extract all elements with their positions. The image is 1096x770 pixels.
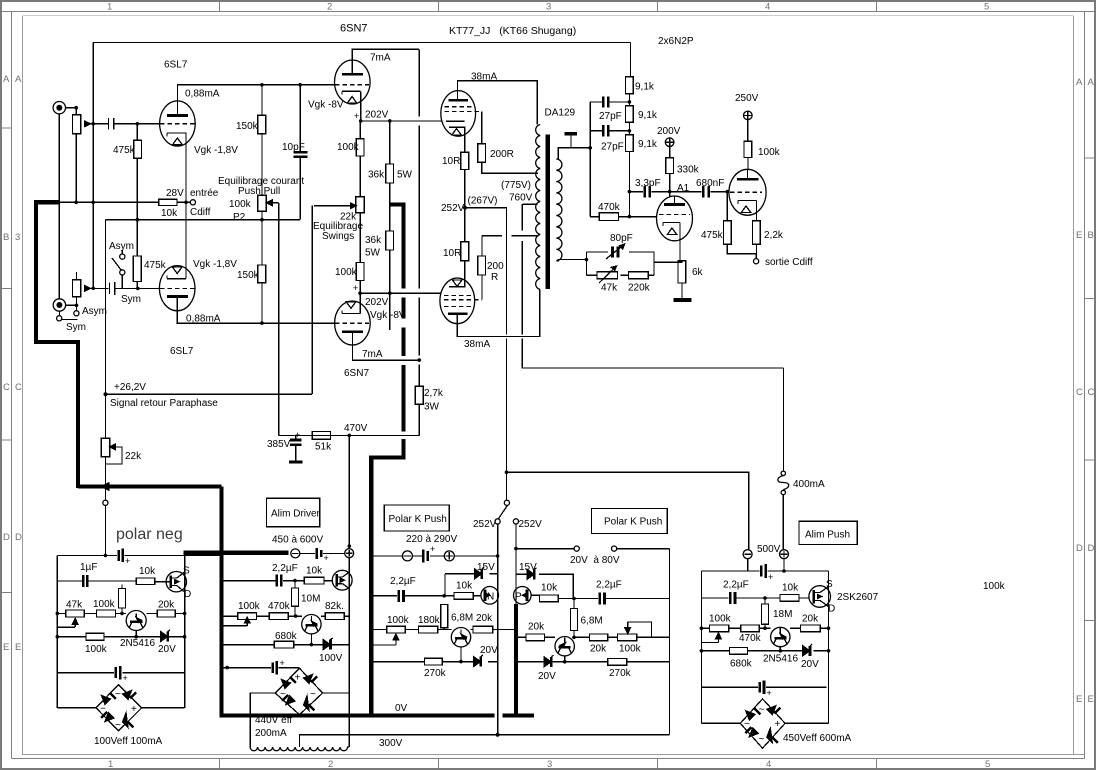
svg-text:(775V): (775V)	[501, 180, 531, 191]
capacitor 27pF #2	[590, 125, 629, 136]
bridge row alim push	[701, 722, 828, 724]
node row3 ends	[700, 626, 704, 630]
wire cathode V1a down	[185, 133, 187, 202]
tube V2b 6SN7 lower (flipped)	[335, 301, 371, 345]
svg-text:(267V): (267V)	[468, 196, 498, 207]
row3 pkp left	[371, 629, 497, 631]
potentiometer 22k retour	[101, 394, 122, 464]
wire 27pF left bus	[589, 102, 591, 217]
node 150k top	[260, 83, 264, 87]
node emitter	[134, 635, 138, 639]
svg-text:270k: 270k	[424, 668, 447, 679]
svg-text:+: +	[295, 673, 301, 684]
secondary coil 440V	[250, 747, 349, 751]
svg-text:200R: 200R	[490, 149, 514, 160]
node 3,3pF line	[628, 190, 632, 194]
resistor 9,1k #2	[626, 106, 634, 135]
A1 grid from 470k line	[590, 216, 656, 218]
resistor 150k lower	[258, 265, 266, 323]
resistor 470k feedback	[599, 213, 618, 221]
470V vertical rail x419	[418, 49, 420, 435]
terminal minus pkp left	[402, 551, 412, 561]
center tap 300V	[300, 735, 670, 747]
svg-text:+: +	[775, 719, 781, 730]
input jack J2	[53, 299, 65, 311]
202V lower line	[360, 292, 441, 294]
svg-text:500V: 500V	[757, 544, 781, 555]
svg-text:36k: 36k	[365, 235, 382, 246]
coupling capacitor C1	[109, 118, 114, 129]
wire grid node to 475k	[726, 192, 728, 221]
svg-text:N: N	[487, 592, 494, 603]
svg-text:C: C	[1088, 387, 1095, 398]
svg-text:2x6N2P: 2x6N2P	[658, 36, 694, 47]
svg-text:E: E	[3, 642, 9, 653]
svg-text:+26,2V: +26,2V	[114, 382, 146, 393]
node module top	[104, 554, 108, 558]
svg-text:10k: 10k	[306, 566, 323, 577]
trimmer capacitor 80pF	[606, 244, 625, 259]
svg-text:R: R	[491, 272, 498, 283]
wire cathode V1b up	[185, 202, 187, 278]
secondary top wire	[556, 148, 590, 159]
resistor 470k driver	[269, 613, 288, 620]
node bus row1	[496, 554, 500, 558]
thick branch to alim driver minus	[184, 551, 289, 555]
svg-text:82k.: 82k.	[325, 601, 344, 612]
node 252V to alim push	[505, 470, 509, 474]
svg-text:100k: 100k	[335, 267, 358, 278]
svg-text:9,1k: 9,1k	[635, 82, 655, 93]
resistor 475k lower	[133, 220, 141, 288]
transformer box 440V	[250, 693, 349, 747]
svg-text:2,2k: 2,2k	[764, 230, 784, 241]
node 6,8M right bottom	[572, 636, 576, 640]
box Alim Push	[799, 521, 857, 544]
wire pot2 top	[76, 272, 78, 280]
resistor 200R lower	[478, 236, 486, 300]
svg-text:22k: 22k	[125, 451, 142, 462]
inner frame left line	[22, 16, 24, 755]
node jack1	[74, 106, 78, 110]
node 10M bottom	[294, 614, 298, 618]
svg-text:3W: 3W	[424, 402, 440, 413]
capacitor 385V + ground	[289, 435, 302, 462]
wire jack1 tip to node	[66, 107, 77, 109]
svg-text:15V: 15V	[477, 562, 495, 573]
node A1 plate	[668, 190, 672, 194]
svg-text:Polar K Push: Polar K Push	[604, 517, 662, 528]
svg-text:D: D	[1088, 543, 1095, 554]
wire 6SL7 upper plate to rail	[177, 85, 335, 116]
resistor 20k polarneg	[157, 610, 175, 617]
28V 10k line	[60, 201, 186, 203]
potentiometer 22k swings	[314, 197, 364, 263]
node plus top line	[782, 569, 786, 573]
svg-text:1µF: 1µF	[80, 562, 97, 573]
potentiometer 100k P2	[258, 195, 279, 265]
terminal Sym lower	[57, 311, 78, 321]
svg-text:+: +	[125, 556, 130, 566]
svg-text:A: A	[3, 74, 10, 85]
wire pot P1 bottom down to 28V line	[75, 134, 77, 203]
cap row polarneg	[57, 672, 184, 674]
B+ wire down from tap	[522, 204, 783, 368]
resistor 470k push	[741, 625, 760, 632]
trimmer resistor 47k	[597, 266, 618, 283]
svg-text:10k: 10k	[161, 208, 178, 219]
svg-text:20k: 20k	[802, 614, 819, 625]
row2 pkp right	[559, 598, 670, 600]
svg-text:150k: 150k	[236, 121, 259, 132]
wire link left bus to right thick	[498, 629, 516, 631]
wire grid line upper 6SL7	[90, 123, 160, 125]
node 36k bottom	[388, 291, 392, 295]
svg-text:2SK2607: 2SK2607	[837, 592, 879, 603]
wire g2 upper to 200R	[481, 112, 483, 144]
svg-text:18M: 18M	[773, 609, 792, 620]
right bus alim push	[828, 571, 830, 723]
capacitor filter driver	[273, 658, 285, 675]
svg-text:0,88mA: 0,88mA	[185, 89, 220, 100]
svg-text:Cdiff: Cdiff	[190, 207, 211, 218]
svg-text:Alim Push: Alim Push	[805, 530, 850, 541]
node pot1 bottom	[74, 201, 78, 205]
wire 252V to down rail	[465, 208, 507, 473]
svg-text:20k: 20k	[158, 600, 175, 611]
alim driver right bus	[348, 558, 350, 693]
svg-text:680k: 680k	[275, 631, 298, 642]
svg-text:385V: 385V	[267, 439, 291, 450]
node 27pF1	[628, 100, 632, 104]
vertical resistor polarneg	[119, 585, 126, 614]
transistor 2N5416 driver	[302, 615, 321, 645]
resistor 200R upper	[478, 144, 538, 174]
node cathode junction	[184, 201, 188, 205]
svg-text:1: 1	[108, 759, 113, 770]
svg-text:4: 4	[766, 759, 771, 770]
bridge rectifier alim push	[740, 699, 785, 748]
node 18M bottom	[763, 626, 767, 630]
resistor 18M	[762, 598, 769, 628]
resistor 10k push	[780, 595, 799, 602]
svg-text:5: 5	[985, 759, 990, 770]
node cap row	[225, 666, 229, 670]
svg-text:200V: 200V	[657, 126, 681, 137]
svg-text:+: +	[354, 111, 359, 121]
row3 alim push	[701, 627, 828, 629]
capacitor 3,3pF	[645, 186, 650, 198]
svg-text:S: S	[826, 579, 833, 590]
svg-text:470V: 470V	[344, 423, 368, 434]
svg-text:10k: 10k	[139, 566, 156, 577]
zener 100V	[323, 638, 333, 650]
svg-text:10pF: 10pF	[282, 142, 305, 153]
grid line A1	[629, 191, 669, 193]
svg-text:3: 3	[15, 232, 20, 243]
svg-text:Vgk -1,8V: Vgk -1,8V	[194, 145, 238, 156]
wire 252V bus down	[497, 524, 499, 735]
resistor 2,2k	[753, 221, 761, 259]
svg-text:−: −	[744, 719, 750, 730]
resistor 100k output	[744, 141, 752, 170]
zener 20V pkp left	[474, 655, 484, 667]
thick ground wire upper left	[36, 202, 78, 488]
terminal sortie Cdiff	[754, 259, 759, 264]
svg-text:+: +	[131, 704, 137, 715]
svg-text:200: 200	[487, 261, 504, 272]
svg-text:5W: 5W	[365, 248, 381, 259]
svg-text:10R: 10R	[442, 156, 460, 167]
wire FET source up	[184, 555, 186, 572]
pot 100k driver	[222, 613, 257, 626]
left ruler ticks	[2, 128, 12, 593]
resistor 20k r2	[590, 634, 608, 641]
ground A1	[673, 298, 691, 302]
primary tap 775V	[522, 203, 537, 205]
transistor 2N5416 push	[771, 627, 790, 651]
svg-text:P2: P2	[233, 212, 246, 223]
svg-text:475k: 475k	[144, 260, 167, 271]
pot 100k pkp right	[618, 622, 652, 641]
svg-text:36k: 36k	[368, 170, 385, 181]
coupling capacitor C2	[109, 282, 114, 295]
node C1 right / 475k top	[136, 122, 140, 126]
resistor 150k upper	[258, 85, 266, 196]
right ruler ticks	[1085, 158, 1096, 621]
node 7mA lower	[417, 358, 421, 362]
resistor 51k	[312, 432, 330, 440]
wire KT77 lower plate to transformer bottom	[457, 290, 539, 337]
node 202V	[359, 119, 363, 123]
svg-text:~: ~	[759, 705, 765, 716]
bridge rectifier alim driver	[275, 668, 322, 714]
input jack J1	[53, 102, 65, 114]
svg-text:~: ~	[759, 734, 765, 745]
svg-text:Asym: Asym	[109, 241, 134, 252]
chassis ground secondary	[565, 134, 577, 148]
svg-text:A1: A1	[677, 183, 690, 194]
svg-text:~: ~	[310, 689, 316, 700]
svg-text:252V: 252V	[441, 203, 465, 214]
wire node down to pot P1	[75, 108, 77, 115]
svg-text:100k: 100k	[758, 147, 781, 158]
svg-text:6SN7: 6SN7	[344, 368, 369, 379]
wire 252V node to alim push minus	[507, 472, 749, 550]
resistor 100k swings upper	[356, 121, 364, 197]
row3 polarneg	[57, 636, 184, 638]
cap row alim driver	[222, 667, 300, 669]
svg-text:0V: 0V	[395, 703, 408, 714]
svg-text:2,2µF: 2,2µF	[596, 580, 622, 591]
svg-text:+: +	[280, 658, 285, 668]
node emitter push	[779, 649, 783, 653]
secondary bottom wire	[556, 260, 586, 261]
svg-text:15V: 15V	[519, 562, 537, 573]
svg-text:1: 1	[107, 2, 112, 13]
tube V4 KT77 lower (flipped)	[440, 278, 482, 324]
svg-text:5: 5	[984, 2, 989, 13]
wire cathode V2b up to 202V lower	[359, 293, 361, 313]
resistor 100k swings lower	[356, 263, 364, 294]
resistor 82k	[325, 613, 344, 620]
zener 20V polarneg	[161, 630, 171, 642]
node above plus	[348, 544, 352, 548]
FET 2SK2607	[809, 586, 831, 608]
capacitor input alim driver	[300, 548, 345, 563]
svg-text:10R: 10R	[443, 248, 461, 259]
svg-text:~: ~	[115, 689, 121, 700]
svg-text:27pF: 27pF	[601, 142, 624, 153]
capacitor 27pF #1	[590, 96, 629, 107]
svg-text:7mA: 7mA	[362, 349, 383, 360]
resistor 36k 5W lower	[386, 231, 394, 330]
reservoir capacitor polar neg	[119, 549, 131, 566]
A1 cathode wire	[672, 223, 682, 263]
svg-text:470k: 470k	[739, 633, 762, 644]
svg-text:680nF: 680nF	[696, 178, 724, 189]
resistor 20k r1	[526, 634, 545, 641]
primary winding	[536, 125, 541, 290]
node secondary bottom	[585, 258, 589, 262]
svg-text:6SL7: 6SL7	[164, 60, 188, 71]
resistor 180k	[419, 626, 438, 633]
svg-text:6,8M: 6,8M	[451, 613, 473, 624]
svg-text:10k: 10k	[782, 583, 799, 594]
svg-text:D: D	[15, 532, 22, 543]
zener 15V right	[516, 568, 573, 599]
node 470k right	[628, 215, 632, 219]
wire jack2 tip	[66, 304, 77, 306]
resistor 10R lower	[461, 242, 469, 288]
terminal minus alim push	[743, 550, 752, 559]
capacitor filter polarneg	[116, 666, 128, 683]
bridge rectifier polar neg	[96, 685, 142, 731]
svg-text:20k: 20k	[528, 622, 545, 633]
svg-text:E: E	[1076, 694, 1082, 705]
resistor 6,8M left	[441, 605, 448, 630]
module right bus	[184, 572, 186, 708]
wires terminals to top line	[748, 559, 784, 571]
node 6,8M right top	[572, 597, 576, 601]
svg-text:100k: 100k	[337, 142, 360, 153]
svg-text:470k: 470k	[268, 601, 291, 612]
+26,2V paraphase line	[106, 206, 313, 395]
470V line	[279, 431, 420, 435]
svg-text:+: +	[324, 553, 329, 563]
svg-text:100V: 100V	[319, 653, 343, 664]
capacitor 2,2uF pkp left	[399, 590, 404, 602]
resistor 10k driver	[304, 577, 324, 584]
row4 pkp left	[371, 661, 497, 663]
node 6,8M top	[442, 594, 446, 598]
zener 20V pkp right	[544, 655, 554, 667]
FET 2SJ polar neg	[155, 572, 187, 592]
svg-text:polar neg: polar neg	[116, 526, 183, 543]
terminal minus alim driver	[291, 549, 300, 558]
resistor 330k	[666, 158, 674, 197]
node row2 left	[56, 612, 60, 616]
terminal plus pkp left	[444, 551, 454, 561]
row2 pkp left	[371, 595, 481, 597]
svg-text:680k: 680k	[730, 659, 753, 670]
resistor 9,1k #1	[626, 77, 634, 106]
resistor 6k	[678, 261, 686, 299]
svg-text:27pF: 27pF	[599, 111, 622, 122]
tube V1b 6SL7 lower triode (flipped)	[159, 266, 195, 311]
svg-text:400mA: 400mA	[793, 479, 825, 490]
svg-text:6SL7: 6SL7	[170, 346, 194, 357]
svg-text:KT77_JJ (KT66 Shugang): KT77_JJ (KT66 Shugang)	[449, 25, 576, 37]
resistor 10k polarneg	[136, 578, 155, 585]
capacitor input pkp left	[423, 544, 435, 562]
svg-text:20k: 20k	[590, 644, 607, 655]
svg-text:Vgk -8V: Vgk -8V	[308, 100, 344, 111]
resistor 10k pkp left	[454, 592, 473, 599]
svg-text:A: A	[1076, 77, 1083, 88]
svg-text:475k: 475k	[113, 145, 136, 156]
node 252V	[463, 206, 467, 210]
row1 alim driver	[222, 580, 333, 582]
wire cathode output tube	[756, 201, 758, 221]
wire plate V2b to 470V rail	[352, 345, 419, 360]
svg-text:80pF: 80pF	[610, 233, 633, 244]
svg-text:20k: 20k	[476, 613, 493, 624]
potentiometer P1 input upper	[72, 115, 90, 134]
svg-text:100k: 100k	[387, 615, 410, 626]
svg-text:B: B	[1088, 230, 1094, 241]
svg-text:E: E	[1088, 694, 1094, 705]
wire equalize rail y219.7	[106, 220, 301, 395]
svg-text:7mA: 7mA	[370, 53, 391, 64]
svg-text:100k: 100k	[238, 601, 261, 612]
wire FET D down	[184, 592, 186, 614]
svg-text:2N5416: 2N5416	[763, 654, 798, 665]
svg-text:100k: 100k	[619, 644, 642, 655]
node 475k1 bottom	[136, 218, 140, 222]
svg-text:202V: 202V	[365, 110, 389, 121]
MOSFET N pkp left	[481, 587, 499, 605]
node emitter driver	[310, 643, 314, 647]
top feedback rail	[93, 43, 630, 124]
left bus alim push	[700, 571, 702, 723]
node vert res top	[120, 612, 124, 616]
wire right 252V down	[515, 524, 517, 604]
node emitter pkp right	[563, 660, 567, 664]
resistor 10M	[292, 581, 299, 617]
202V upper line	[361, 120, 442, 122]
svg-text:Swings: Swings	[322, 231, 354, 242]
svg-text:252V: 252V	[473, 519, 497, 530]
svg-text:100k: 100k	[229, 199, 252, 210]
svg-text:entrée: entrée	[190, 188, 219, 199]
node grid lower	[136, 287, 140, 291]
tube V6 output 6N2P	[729, 169, 766, 215]
svg-text:4: 4	[765, 2, 770, 13]
svg-text:−: −	[100, 704, 106, 715]
resistor 270k left	[425, 658, 443, 665]
node row3 right	[183, 635, 187, 639]
node pot2 bottom	[75, 304, 79, 308]
wire 22k to polar neg	[105, 464, 107, 500]
transistor 2N5416 polarneg	[126, 611, 146, 637]
capacitor 2,2uF push	[730, 592, 735, 604]
wire rail down to 9,1k chain	[629, 43, 631, 77]
svg-text:C: C	[1076, 387, 1083, 398]
svg-text:Signal retour Paraphase: Signal retour Paraphase	[110, 398, 218, 409]
tube V2a 6SN7 upper	[335, 60, 371, 104]
svg-text:3,3pF: 3,3pF	[635, 178, 661, 189]
